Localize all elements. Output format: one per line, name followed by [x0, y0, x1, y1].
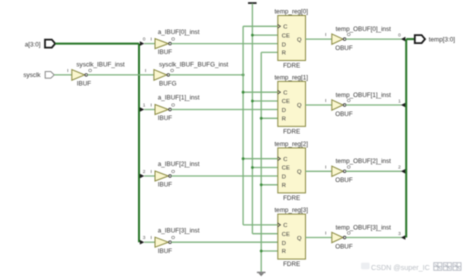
svg-text:O: O	[347, 98, 351, 104]
svg-text:sysclk_IBUF_BUFG_inst: sysclk_IBUF_BUFG_inst	[159, 61, 229, 68]
svg-text:Q: Q	[297, 37, 302, 43]
svg-text:C: C	[283, 90, 287, 96]
svg-text:D: D	[282, 42, 286, 48]
svg-text:temp_OBUF[3]_inst: temp_OBUF[3]_inst	[336, 224, 392, 231]
svg-text:O: O	[171, 37, 175, 43]
svg-text:FDRE: FDRE	[283, 63, 300, 70]
svg-text:O: O	[347, 164, 351, 170]
svg-text:I: I	[325, 164, 326, 170]
svg-text:C: C	[283, 223, 287, 229]
svg-text:sysclk_IBUF_inst: sysclk_IBUF_inst	[76, 62, 125, 69]
svg-text:sysclk: sysclk	[23, 72, 41, 79]
svg-text:D: D	[282, 241, 286, 247]
svg-text:2: 2	[143, 169, 146, 175]
svg-text:I: I	[145, 68, 146, 74]
svg-text:O: O	[171, 169, 175, 175]
svg-text:3: 3	[398, 231, 401, 237]
svg-text:CE: CE	[282, 232, 290, 238]
svg-text:O: O	[88, 68, 92, 74]
svg-text:temp[3:0]: temp[3:0]	[429, 36, 456, 43]
svg-text:CE: CE	[282, 166, 290, 172]
svg-text:temp_reg[1]: temp_reg[1]	[274, 74, 308, 81]
svg-text:C: C	[283, 157, 287, 163]
svg-text:a_IBUF[3]_inst: a_IBUF[3]_inst	[158, 227, 200, 234]
svg-text:temp_OBUF[0]_inst: temp_OBUF[0]_inst	[336, 26, 392, 33]
svg-text:FDRE: FDRE	[283, 195, 300, 202]
svg-text:OBUF: OBUF	[335, 243, 353, 250]
svg-text:a_IBUF[2]_inst: a_IBUF[2]_inst	[158, 161, 200, 168]
svg-text:R: R	[282, 183, 286, 189]
svg-text:temp_OBUF[1]_inst: temp_OBUF[1]_inst	[336, 92, 392, 99]
svg-text:O: O	[171, 235, 175, 241]
svg-text:a_IBUF[1]_inst: a_IBUF[1]_inst	[158, 95, 200, 102]
svg-text:I: I	[325, 231, 326, 237]
svg-text:IBUF: IBUF	[158, 115, 172, 122]
svg-text:I: I	[325, 98, 326, 104]
svg-text:Q: Q	[297, 236, 302, 242]
svg-text:OBUF: OBUF	[335, 45, 353, 52]
svg-text:OBUF: OBUF	[335, 111, 353, 118]
svg-text:1: 1	[143, 103, 146, 109]
svg-text:temp_reg[0]: temp_reg[0]	[274, 9, 308, 16]
svg-text:C: C	[283, 25, 287, 31]
svg-text:O: O	[171, 103, 175, 109]
svg-text:I: I	[150, 169, 151, 175]
svg-text:temp_OBUF[2]_inst: temp_OBUF[2]_inst	[336, 158, 392, 165]
svg-text:IBUF: IBUF	[158, 182, 172, 189]
svg-text:Q: Q	[297, 170, 302, 176]
svg-text:I: I	[67, 68, 68, 74]
svg-text:Q: Q	[297, 103, 302, 109]
svg-text:D: D	[282, 175, 286, 181]
svg-text:CSDN @super_IC: CSDN @super_IC	[371, 263, 430, 272]
svg-text:IBUF: IBUF	[158, 49, 172, 56]
svg-text:temp_reg[2]: temp_reg[2]	[274, 141, 308, 148]
svg-text:FDRE: FDRE	[283, 128, 300, 135]
svg-text:O: O	[170, 68, 174, 74]
svg-text:I: I	[150, 103, 151, 109]
svg-text:O: O	[347, 231, 351, 237]
svg-text:1: 1	[398, 98, 401, 104]
svg-text:R: R	[282, 117, 286, 123]
svg-text:I: I	[150, 235, 151, 241]
svg-text:I: I	[150, 37, 151, 43]
svg-text:3: 3	[143, 235, 146, 241]
svg-text:D: D	[282, 108, 286, 114]
svg-text:R: R	[282, 249, 286, 255]
svg-text:R: R	[282, 51, 286, 57]
svg-text:2: 2	[398, 165, 401, 171]
svg-text:O: O	[347, 32, 351, 38]
svg-text:BUFG: BUFG	[159, 81, 177, 88]
svg-text:IBUF: IBUF	[77, 81, 91, 88]
svg-text:a[3:0]: a[3:0]	[25, 41, 41, 48]
svg-text:CE: CE	[282, 99, 290, 105]
svg-text:a_IBUF[0]_inst: a_IBUF[0]_inst	[158, 29, 200, 36]
svg-text:0: 0	[143, 37, 146, 43]
svg-text:FDRE: FDRE	[283, 261, 300, 268]
svg-text:CE: CE	[282, 33, 290, 39]
svg-text:temp_reg[3]: temp_reg[3]	[274, 207, 308, 214]
svg-text:IBUF: IBUF	[158, 248, 172, 255]
svg-text:0: 0	[398, 33, 401, 39]
svg-text:I: I	[325, 32, 326, 38]
svg-text:OBUF: OBUF	[335, 177, 353, 184]
